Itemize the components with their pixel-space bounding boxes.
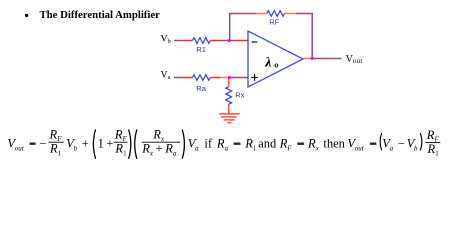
svg-text:a: a [173,149,177,157]
svg-text:R: R [427,142,436,156]
svg-text:+: + [82,136,89,150]
svg-text:x: x [315,144,320,152]
svg-text:R: R [114,127,123,141]
svg-text:λ: λ [264,56,271,71]
svg-text:R: R [152,127,161,141]
svg-text:b: b [74,144,78,152]
svg-text:−: − [398,136,405,150]
svg-text:R: R [216,136,225,150]
svg-text:out: out [353,58,363,65]
svg-text:1: 1 [58,149,62,157]
svg-text:out: out [15,144,25,152]
svg-text:R: R [49,142,58,156]
svg-text:b: b [168,38,171,45]
svg-text:+: + [106,136,113,150]
svg-text:R1: R1 [196,45,206,54]
svg-text:F: F [286,144,292,152]
svg-text:R: R [164,142,173,156]
svg-text:out: out [355,144,365,152]
svg-text:−: − [39,136,46,150]
svg-text:RF: RF [269,18,279,27]
svg-text:and: and [258,136,277,150]
svg-text:R: R [244,136,253,150]
svg-text:R: R [307,136,316,150]
svg-text:a: a [168,74,171,81]
svg-text:R: R [426,128,435,142]
svg-text:b: b [414,144,418,152]
svg-text:x: x [149,149,154,157]
svg-text:if: if [204,136,212,150]
svg-text:The Differential Amplifier: The Differential Amplifier [40,9,161,21]
svg-text:1: 1 [435,150,439,158]
svg-text:1: 1 [253,144,257,152]
svg-text:R: R [114,142,123,156]
svg-text:Rx: Rx [235,91,244,100]
svg-text:R: R [49,127,58,141]
svg-text:1: 1 [98,136,104,150]
svg-text:a: a [390,144,394,152]
svg-text:1: 1 [123,149,127,157]
svg-text:R: R [141,142,150,156]
svg-text:Ra: Ra [196,84,206,93]
svg-text:+: + [156,142,163,156]
svg-text:then: then [323,136,345,150]
svg-text:a: a [225,144,229,152]
svg-text:a: a [195,144,199,152]
svg-text:o: o [274,59,278,69]
svg-text:R: R [279,136,288,150]
